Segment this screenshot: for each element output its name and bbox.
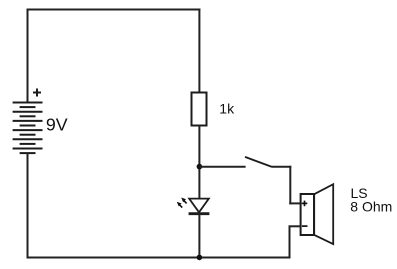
node junction dot (bottom rail) [197, 255, 203, 261]
switch S1 blade (open) [245, 157, 272, 167]
loudspeaker cone [314, 184, 333, 244]
wire top horizontal (battery + to resistor branch) [27, 9, 201, 11]
wire switch to right branch [272, 166, 292, 168]
wire right vertical (switch down to speaker +) [289, 166, 291, 205]
resistor R1 1k [192, 93, 207, 126]
LED light arrow 2 [177, 202, 182, 208]
wire left vertical (top wire down to battery +) [27, 9, 29, 103]
battery + polarity sign [33, 89, 41, 97]
loudspeaker LS1 body [301, 194, 314, 235]
wire into speaker - terminal [289, 225, 302, 227]
svg-text:9V: 9V [46, 115, 68, 135]
wire bottom rail [27, 257, 291, 259]
wire into speaker + terminal [289, 202, 301, 204]
wire middle vertical (top rail down to resistor) [198, 9, 200, 94]
wire right vertical (bottom rail up to speaker -) [289, 226, 291, 258]
wire middle vertical (LED to bottom rail) [198, 214, 200, 258]
wire left vertical (battery - down to bottom rail) [27, 153, 29, 258]
speaker - terminal mark [302, 225, 308, 227]
LED D1 [189, 199, 210, 214]
node junction dot (switch branch) [197, 164, 203, 170]
LED light arrow 1 [181, 198, 186, 204]
svg-text:1k: 1k [219, 101, 235, 117]
svg-text:8 Ohm: 8 Ohm [350, 199, 392, 215]
speaker + terminal mark [302, 201, 308, 207]
wire switch branch horizontal [199, 166, 245, 168]
battery B1 9V (6 cells) [13, 103, 43, 154]
wire middle vertical (resistor to LED) [198, 126, 200, 200]
